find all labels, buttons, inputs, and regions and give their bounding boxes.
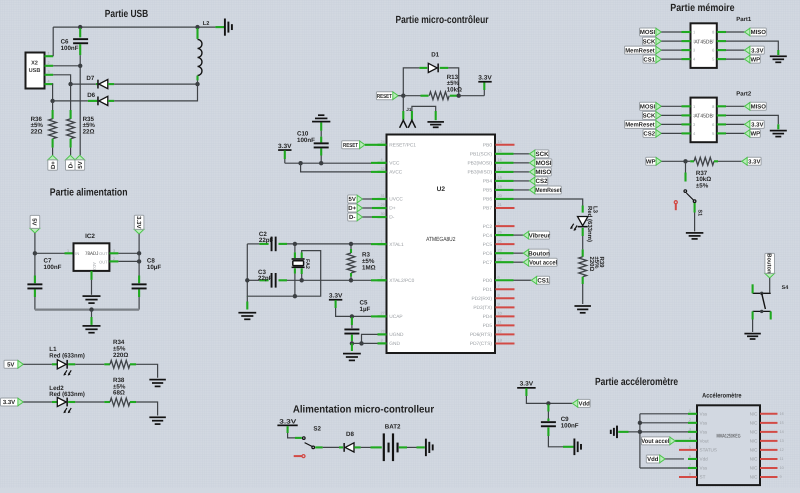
svg-text:23: 23 xyxy=(498,248,502,252)
ground earth right of L2 xyxy=(224,19,226,36)
svg-text:Vdd: Vdd xyxy=(579,401,591,408)
svg-text:5V: 5V xyxy=(77,161,84,168)
svg-text:2: 2 xyxy=(48,61,50,65)
svg-text:4: 4 xyxy=(48,80,50,84)
node junction R13/D1 xyxy=(457,94,461,98)
svg-text:Vss: Vss xyxy=(700,466,708,471)
svg-text:MOSI: MOSI xyxy=(640,104,656,111)
svg-text:Partie alimentation: Partie alimentation xyxy=(50,188,128,199)
svg-text:3.3V: 3.3V xyxy=(751,122,763,129)
supply flag 3.3V xyxy=(134,229,144,234)
battery BAT2 xyxy=(383,433,385,461)
svg-text:Red (633nm): Red (633nm) xyxy=(586,206,593,242)
memory chip AT45DB Part2 xyxy=(691,98,717,143)
svg-text:ATMEGA8U2: ATMEGA8U2 xyxy=(426,236,456,243)
ground below C2/C3 xyxy=(238,312,256,314)
memory chip AT45DB Part1 xyxy=(691,23,717,68)
svg-text:22Ω: 22Ω xyxy=(31,128,43,135)
switch S1 xyxy=(685,161,687,172)
diode D6 xyxy=(53,100,88,102)
resistor R35 xyxy=(70,84,72,110)
ground Part1 xyxy=(770,55,787,57)
net flag MemReset Part1 xyxy=(625,46,657,54)
wire C5 ground stem xyxy=(351,343,353,351)
wire OUT1 to 3.3V xyxy=(109,252,118,254)
wire top rail xyxy=(53,26,215,28)
wire X2 pin3 down to D- net xyxy=(53,75,70,84)
wire pin7 to ground Part2 xyxy=(717,114,726,116)
svg-text:GND: GND xyxy=(389,341,400,347)
svg-text:3: 3 xyxy=(113,249,115,253)
svg-text:22: 22 xyxy=(498,257,502,261)
wire UGND jog xyxy=(362,334,378,343)
svg-text:XTAL2/PC0: XTAL2/PC0 xyxy=(389,278,414,284)
svg-text:24: 24 xyxy=(381,140,385,144)
svg-text:100nF: 100nF xyxy=(297,137,315,144)
microcontroller U2 ATMEGA8U2 xyxy=(387,135,496,354)
ground above C10 xyxy=(312,121,330,123)
svg-text:MOSI: MOSI xyxy=(640,29,656,36)
pin ADJ to ground xyxy=(90,271,92,280)
svg-text:N/C: N/C xyxy=(750,429,759,434)
svg-text:FA2: FA2 xyxy=(304,259,310,269)
wire OUT2 xyxy=(109,260,118,262)
svg-text:PB0: PB0 xyxy=(483,143,492,149)
svg-text:5: 5 xyxy=(689,445,691,449)
svg-text:1: 1 xyxy=(67,249,69,253)
svg-text:USB: USB xyxy=(29,68,41,74)
svg-text:19: 19 xyxy=(498,185,502,189)
node junction C3 left xyxy=(245,278,249,282)
svg-text:100nF: 100nF xyxy=(61,45,79,52)
svg-text:5V: 5V xyxy=(349,196,356,203)
svg-text:Partie USB: Partie USB xyxy=(105,9,149,20)
node junction UGND/GND xyxy=(359,341,363,345)
svg-text:Partie accéleromètre: Partie accéleromètre xyxy=(595,377,678,388)
net flag RESET at pin xyxy=(342,141,361,149)
svg-text:D6: D6 xyxy=(87,92,95,99)
svg-text:OUT: OUT xyxy=(99,259,108,264)
capacitor C3 xyxy=(247,279,259,281)
inductor L2 xyxy=(196,28,198,39)
svg-text:Part1: Part1 xyxy=(736,16,752,23)
svg-text:3.3V: 3.3V xyxy=(3,399,15,406)
node junction D7/R35 xyxy=(68,82,72,86)
svg-text:UGND: UGND xyxy=(389,332,404,338)
svg-text:1µF: 1µF xyxy=(360,306,371,313)
ground right of C9 xyxy=(573,439,575,456)
net flag SCK Part1 xyxy=(643,37,657,45)
svg-text:PD4: PD4 xyxy=(483,314,493,320)
svg-text:RESET/PC1: RESET/PC1 xyxy=(389,143,416,149)
svg-text:MMA1250KEG: MMA1250KEG xyxy=(717,433,741,439)
svg-text:PD7(CTS): PD7(CTS) xyxy=(470,341,493,347)
svg-text:Bouton: Bouton xyxy=(528,250,550,257)
net flag MOSI Part1 xyxy=(640,28,657,36)
ground below S4 xyxy=(744,333,760,335)
wire GND row xyxy=(352,342,378,344)
power 3.3V at R13 xyxy=(483,90,485,96)
svg-text:30: 30 xyxy=(381,212,385,216)
svg-text:PB2(MOSI): PB2(MOSI) xyxy=(467,161,492,167)
resistor R39 xyxy=(582,249,584,256)
supply flag 5V xyxy=(30,228,40,233)
svg-text:CS1: CS1 xyxy=(643,56,655,63)
svg-text:32: 32 xyxy=(381,167,385,171)
svg-text:78ADJ: 78ADJ xyxy=(85,251,99,257)
svg-text:3.3V: 3.3V xyxy=(278,143,292,150)
wire 5V vertical xyxy=(79,66,81,156)
svg-text:RESET: RESET xyxy=(343,142,358,149)
switch S2 xyxy=(295,437,302,439)
svg-text:D-: D- xyxy=(68,162,75,168)
wire AVCC jog xyxy=(301,163,371,172)
node junction C9/Vdd xyxy=(546,401,550,405)
ground at J1 xyxy=(427,121,444,123)
svg-text:28: 28 xyxy=(381,330,385,334)
svg-text:Red (633nm): Red (633nm) xyxy=(49,391,85,398)
svg-text:PD0: PD0 xyxy=(483,278,493,284)
svg-text:10: 10 xyxy=(780,466,784,470)
red unrouted stub S1 xyxy=(674,201,677,204)
net flag Vdd right xyxy=(577,399,590,407)
svg-text:MISO: MISO xyxy=(535,169,551,176)
svg-text:D+: D+ xyxy=(389,206,395,212)
wire J1 pin2 to ground xyxy=(411,111,413,120)
svg-text:3.3V: 3.3V xyxy=(135,216,142,228)
ground below S1 xyxy=(686,232,704,234)
svg-text:4: 4 xyxy=(689,436,691,440)
wire accel Vss bus xyxy=(639,414,641,468)
svg-text:MISO: MISO xyxy=(751,104,767,111)
svg-text:CS2: CS2 xyxy=(643,131,655,138)
node junction C6/top-rail xyxy=(78,25,82,29)
svg-text:Vdd: Vdd xyxy=(700,457,709,462)
svg-text:68Ω: 68Ω xyxy=(113,390,125,397)
svg-text:VCC: VCC xyxy=(389,161,400,167)
net flag MISO Part1 xyxy=(717,31,726,33)
svg-text:AT45DB: AT45DB xyxy=(694,39,713,45)
svg-text:Alimentation micro-controlleur: Alimentation micro-controlleur xyxy=(293,404,434,415)
svg-text:SCK: SCK xyxy=(643,113,656,120)
wire BAT2 to ground xyxy=(399,446,407,448)
svg-text:U2: U2 xyxy=(437,186,446,193)
svg-text:31: 31 xyxy=(381,194,385,198)
svg-text:7: 7 xyxy=(498,284,500,288)
net flag CS2 Part2 xyxy=(643,129,657,137)
svg-text:220Ω: 220Ω xyxy=(113,352,128,359)
svg-text:CS2: CS2 xyxy=(536,178,549,185)
diode D7 xyxy=(71,83,96,85)
connector X2 USB xyxy=(26,53,45,89)
wire xtal ground rail xyxy=(247,295,295,297)
svg-text:MISO: MISO xyxy=(751,29,767,36)
svg-text:S4: S4 xyxy=(782,285,789,291)
resistor R3 xyxy=(350,244,352,249)
svg-text:SCK: SCK xyxy=(536,151,550,158)
svg-text:Vss: Vss xyxy=(700,420,708,425)
svg-text:21: 21 xyxy=(498,203,502,207)
LED L3 xyxy=(582,206,584,213)
svg-text:WP: WP xyxy=(750,56,760,63)
wire FA2 pin2 loop xyxy=(301,253,303,259)
switch S4 xyxy=(753,292,771,294)
svg-text:SCK: SCK xyxy=(643,38,656,45)
svg-text:16: 16 xyxy=(780,412,784,416)
net flag 5V at L1 xyxy=(4,360,19,368)
svg-text:100nF: 100nF xyxy=(44,264,62,271)
wire 5V to IN xyxy=(34,233,36,253)
svg-text:12: 12 xyxy=(780,448,784,452)
svg-text:9: 9 xyxy=(498,303,500,307)
net flag Vout accel xyxy=(641,437,670,445)
svg-text:D+: D+ xyxy=(50,161,57,169)
resistor R34 xyxy=(104,363,110,365)
svg-text:PC6: PC6 xyxy=(483,251,493,257)
svg-text:L2: L2 xyxy=(203,21,210,27)
node junction bus row2 xyxy=(638,421,642,425)
svg-text:100nF: 100nF xyxy=(561,423,579,430)
svg-text:3.3V: 3.3V xyxy=(520,381,534,388)
svg-text:ADJ: ADJ xyxy=(92,262,97,270)
svg-text:MemReset: MemReset xyxy=(625,47,655,54)
svg-text:AVCC: AVCC xyxy=(389,170,403,176)
svg-text:N/C: N/C xyxy=(750,420,759,425)
net flag WP at R37 xyxy=(646,157,657,165)
svg-text:3.3V: 3.3V xyxy=(329,293,343,300)
svg-text:WP: WP xyxy=(750,131,760,138)
svg-text:N/C: N/C xyxy=(750,448,759,453)
net flag 5V xyxy=(75,155,85,160)
svg-text:PC5: PC5 xyxy=(483,242,493,248)
svg-text:26: 26 xyxy=(498,230,502,234)
svg-text:D-: D- xyxy=(349,214,355,221)
svg-text:PB7: PB7 xyxy=(483,206,492,212)
svg-text:9: 9 xyxy=(780,475,782,479)
svg-text:14: 14 xyxy=(780,430,784,434)
wire PB6 to L3 xyxy=(514,199,583,206)
connector J1 xyxy=(402,96,404,111)
capacitor C6 xyxy=(79,28,81,37)
net flag D+ xyxy=(48,155,58,160)
svg-text:OUT: OUT xyxy=(99,251,108,256)
svg-text:18: 18 xyxy=(498,176,502,180)
svg-text:D+: D+ xyxy=(348,205,356,212)
svg-text:XTAL1: XTAL1 xyxy=(389,242,404,248)
svg-text:3: 3 xyxy=(689,427,691,431)
svg-text:16: 16 xyxy=(498,158,502,162)
svg-text:Accéleromètre: Accéleromètre xyxy=(702,393,742,400)
svg-text:29: 29 xyxy=(381,203,385,207)
wire pin1 to top rail xyxy=(52,27,54,56)
svg-text:Partie mémoire: Partie mémoire xyxy=(670,3,734,14)
node junction D7/L2 xyxy=(195,82,199,86)
wire C2/C3 left vertical xyxy=(246,244,248,296)
svg-text:4: 4 xyxy=(381,158,383,162)
node junction D6/R36 xyxy=(50,99,54,103)
svg-text:14: 14 xyxy=(498,140,502,144)
ground below R38 xyxy=(149,416,166,418)
svg-text:11: 11 xyxy=(780,457,784,461)
net flag RESET upper xyxy=(376,92,393,100)
svg-text:Partie micro-contrôleur: Partie micro-contrôleur xyxy=(396,15,489,26)
red unrouted stub S2 xyxy=(294,455,302,457)
U2 left pin stubs and names xyxy=(378,144,387,146)
svg-text:5V: 5V xyxy=(31,218,38,225)
svg-text:CS1: CS1 xyxy=(537,277,550,284)
net flag 3.3V Part2 xyxy=(717,123,726,125)
node junction C5/UCAP xyxy=(350,314,354,318)
svg-text:Bouton: Bouton xyxy=(766,253,772,274)
capacitor C7 xyxy=(34,253,36,275)
capacitor C8 xyxy=(138,276,140,284)
svg-text:N/C: N/C xyxy=(750,411,759,416)
node junction rail/ground xyxy=(89,307,93,311)
svg-text:RESET: RESET xyxy=(377,93,392,100)
svg-text:15: 15 xyxy=(498,149,502,153)
svg-text:10µF: 10µF xyxy=(147,264,161,271)
diode D8 xyxy=(339,446,343,448)
svg-text:2: 2 xyxy=(381,275,383,279)
svg-text:IN: IN xyxy=(75,251,79,256)
svg-text:D1: D1 xyxy=(431,52,439,59)
svg-text:11: 11 xyxy=(498,321,502,325)
svg-text:PB6: PB6 xyxy=(483,197,492,203)
wire X2 pin2 to 5V net xyxy=(53,65,80,67)
svg-text:1: 1 xyxy=(48,52,50,56)
svg-text:PC4: PC4 xyxy=(483,233,493,239)
svg-text:D-: D- xyxy=(389,215,394,221)
svg-text:N/C: N/C xyxy=(750,466,759,471)
svg-text:7: 7 xyxy=(689,463,691,467)
net flag MemReset Part2 xyxy=(625,120,657,128)
capacitor C5 xyxy=(351,317,353,325)
svg-text:8: 8 xyxy=(498,294,500,298)
node junction C10/VCC xyxy=(319,161,323,165)
svg-text:17: 17 xyxy=(498,167,502,171)
node junction rail/FA2 xyxy=(293,294,297,298)
svg-text:2: 2 xyxy=(689,418,691,422)
net flag 3.3V at R37 xyxy=(747,157,762,165)
net flag MISO Part2 xyxy=(717,105,726,107)
svg-text:27: 27 xyxy=(381,312,385,316)
net flag 3.3V at Led2 xyxy=(1,398,19,406)
net flag CS1 Part1 xyxy=(643,55,657,63)
LED Led2 xyxy=(23,401,52,403)
wire VCC rail xyxy=(285,162,371,164)
svg-text:AT45DB: AT45DB xyxy=(694,114,713,120)
net flag WP Part1 xyxy=(717,58,726,60)
node junction 5V/C7/IN xyxy=(33,251,37,255)
svg-text:N/C: N/C xyxy=(750,457,759,462)
wire bottom gray rail xyxy=(35,308,139,310)
svg-text:D7: D7 xyxy=(86,75,94,82)
svg-text:PD1: PD1 xyxy=(483,287,493,293)
svg-text:10kΩ: 10kΩ xyxy=(447,86,462,93)
svg-text:5: 5 xyxy=(498,221,500,225)
svg-text:UCAP: UCAP xyxy=(389,314,402,320)
node junction RESET/D1/J1 xyxy=(401,94,405,98)
svg-text:Vibreur: Vibreur xyxy=(529,232,551,239)
resistor R37 xyxy=(686,160,691,162)
svg-text:3.3V: 3.3V xyxy=(751,47,763,54)
svg-text:BAT2: BAT2 xyxy=(385,423,401,430)
net flag SCK Part2 xyxy=(643,111,657,119)
svg-text:MemReset: MemReset xyxy=(625,122,655,129)
ground right of BAT2 xyxy=(425,439,427,457)
wire pin7 to ground Part1 xyxy=(717,40,726,42)
net flag D+ at pin xyxy=(348,204,358,212)
wire D6 to L2 node xyxy=(114,84,197,101)
svg-text:1MΩ: 1MΩ xyxy=(362,265,376,272)
ground below ADJ xyxy=(83,295,101,297)
svg-text:WP: WP xyxy=(646,159,656,166)
svg-text:5V: 5V xyxy=(7,362,14,369)
svg-text:3: 3 xyxy=(381,339,383,343)
net flag MOSI Part2 xyxy=(640,102,657,110)
svg-text:IC2: IC2 xyxy=(85,233,95,240)
node junction WP/R37/S1 xyxy=(683,159,687,163)
wire 3.3V vertical to C8 xyxy=(138,234,140,283)
wire Bouton to S4 xyxy=(769,278,771,293)
svg-text:Vdd: Vdd xyxy=(647,456,659,463)
svg-text:PD6(RTS): PD6(RTS) xyxy=(470,332,492,338)
node junction XTAL1/R3 xyxy=(349,242,353,246)
wire X2 pin4 down to D+ net xyxy=(52,84,55,101)
svg-text:15: 15 xyxy=(780,421,784,425)
svg-text:MOSI: MOSI xyxy=(536,160,552,167)
crystal FA2 xyxy=(294,244,296,252)
wire S1 to ground xyxy=(694,203,696,213)
node junction L2/top-rail xyxy=(195,25,199,29)
node junction bus row3 xyxy=(638,430,642,434)
svg-text:X2: X2 xyxy=(31,61,38,67)
net flag D- at pin xyxy=(348,213,358,221)
svg-text:220Ω: 220Ω xyxy=(588,257,595,272)
svg-text:Part2: Part2 xyxy=(736,91,752,98)
svg-text:J1: J1 xyxy=(406,107,412,112)
svg-text:10: 10 xyxy=(498,312,502,316)
svg-text:PD2(RXI): PD2(RXI) xyxy=(471,296,492,302)
svg-text:Vout accel: Vout accel xyxy=(529,259,557,266)
svg-text:PB5: PB5 xyxy=(483,188,492,194)
node junction OUT1 xyxy=(137,251,141,255)
node junction R3/XTAL2 xyxy=(349,278,353,282)
node junction C5/GND row xyxy=(350,341,354,345)
net flag Vdd at accel xyxy=(646,455,660,463)
svg-text:N/C: N/C xyxy=(750,438,759,443)
svg-text:8: 8 xyxy=(689,472,691,476)
svg-text:3.3V: 3.3V xyxy=(478,75,492,82)
svg-text:3.3V: 3.3V xyxy=(748,159,760,166)
svg-text:MemReset: MemReset xyxy=(535,187,561,194)
svg-text:PB4: PB4 xyxy=(483,179,492,185)
capacitor C9 xyxy=(547,404,549,411)
svg-text:6: 6 xyxy=(498,275,500,279)
svg-text:PB1(SCK): PB1(SCK) xyxy=(470,152,493,158)
ground Part2 xyxy=(770,130,787,132)
svg-text:N/C: N/C xyxy=(750,475,759,480)
ground below C5 xyxy=(343,353,361,355)
svg-text:±5%: ±5% xyxy=(696,182,709,189)
ground left of accel xyxy=(616,426,618,439)
svg-text:Vss: Vss xyxy=(700,411,708,416)
node junction FA2/XTAL2 xyxy=(300,278,304,282)
svg-text:Vout: Vout xyxy=(700,438,710,443)
net flag WP Part2 xyxy=(717,132,726,134)
svg-text:S1: S1 xyxy=(696,210,702,217)
svg-text:ST: ST xyxy=(700,475,706,480)
